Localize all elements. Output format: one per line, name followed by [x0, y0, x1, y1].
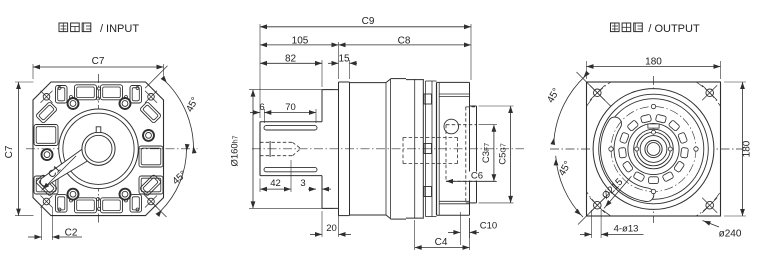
clamp slot band: [601, 117, 654, 202]
svg-text:3: 3: [300, 178, 305, 189]
svg-text:C7: C7: [4, 145, 15, 158]
svg-text:82: 82: [285, 54, 297, 65]
leader diameter 215: [600, 176, 631, 208]
dimension C3 F7: [479, 125, 498, 182]
svg-text:15: 15: [338, 54, 350, 65]
output bore hidden (C3): [446, 125, 477, 182]
output corner hole at (597.3,205.2): [590, 198, 605, 213]
dimension 105 and C8: [260, 35, 471, 79]
pocket field right column: [139, 146, 163, 194]
svg-text:180: 180: [645, 56, 662, 67]
svg-text:/ OUTPUT: / OUTPUT: [648, 23, 700, 35]
svg-text:105: 105: [292, 35, 309, 46]
output corner hole at (597.3,92.8): [590, 85, 605, 100]
bolt heads on strip: [424, 94, 432, 197]
input bore hidden lines: [260, 141, 301, 157]
dimension 45 deg output upper: [545, 71, 611, 145]
output boss circles: [593, 89, 714, 210]
output flange square: [587, 82, 721, 216]
dimension C6: [446, 171, 496, 184]
svg-text:C9: C9: [362, 16, 375, 27]
small hole at 0 deg: [694, 147, 698, 151]
hole on output flange face: [444, 119, 459, 134]
dimension 20: [310, 211, 351, 237]
dimension C9: [260, 16, 471, 118]
dimension C7 left: [4, 82, 34, 216]
input bore keyway: [96, 127, 101, 133]
pocket field bottom row: [56, 195, 142, 213]
title OUTPUT (CJK 输出端 / OUTPUT): [611, 23, 643, 32]
input flange outline: [33, 82, 164, 216]
pocket field top row: [56, 85, 142, 103]
output inner circles: [628, 123, 679, 174]
svg-text:/ INPUT: / INPUT: [100, 23, 139, 35]
input coupling housing outline: [260, 122, 322, 176]
bolt hole ring at (47,154.6): [42, 149, 53, 160]
bolt hole ring at (148.5,135.4): [143, 130, 154, 141]
dimension C4: [415, 218, 470, 250]
dimension 45 deg output lower: [554, 156, 611, 225]
dimension 180 right: [724, 82, 753, 216]
svg-text:180: 180: [742, 140, 753, 157]
hub small hole 90: [652, 130, 656, 134]
leader C1: [42, 156, 77, 191]
bolt hole ring at (125,103.5): [120, 98, 131, 109]
svg-text:6: 6: [259, 102, 264, 113]
input flange side silhouette: [339, 82, 350, 216]
dimension C10: [448, 212, 497, 245]
svg-text:C7: C7: [92, 56, 105, 67]
output pilot boss: [470, 106, 477, 203]
svg-text:42: 42: [270, 178, 281, 189]
input bore circles: [82, 132, 115, 165]
dimension C5 G7: [479, 106, 514, 203]
dimension 45 deg upper right: [145, 66, 201, 154]
hub small hole 0: [668, 147, 672, 151]
corner hole at (46.5,96.8): [41, 91, 53, 103]
coupling clamp slot top: [264, 126, 317, 130]
pocket corner diagonals: [36, 102, 162, 197]
svg-text:C10: C10: [480, 221, 497, 232]
pocket field left column: [34, 125, 58, 195]
output hub circles: [637, 132, 671, 166]
rear ring-gear housing: [391, 79, 424, 220]
coupling tooth ring: [655, 114, 666, 123]
pilot boss (160h7): [322, 90, 339, 209]
hidden internal bore in housing: [403, 138, 458, 164]
dimension 42 and 3: [260, 160, 331, 192]
input view centerlines: [26, 74, 198, 223]
svg-text:ø240: ø240: [719, 229, 742, 240]
bolt hole ring at (73,103.5): [68, 98, 79, 109]
output corner hole at (709.7,205.2): [702, 198, 717, 213]
dimension 6 and 70: [250, 102, 316, 123]
small hole at 180 deg: [609, 147, 613, 151]
small hole at 270 deg: [651, 104, 655, 108]
leader diameter 240: [703, 221, 742, 240]
dimension C2 bottom: [28, 207, 82, 240]
bolt hole ring at (73,194.2): [68, 189, 79, 200]
middle view centerline: [252, 148, 524, 150]
gearbox body: [350, 79, 391, 219]
bolt strip: [426, 81, 437, 217]
corner hole at (151,96.8): [145, 91, 157, 103]
svg-text:C2: C2: [65, 228, 78, 239]
hub keyway marker: [648, 124, 659, 128]
coupling clamp slot bottom: [264, 167, 317, 171]
title INPUT (CJK 输入端 / INPUT): [59, 23, 91, 32]
dimension C7 top: [33, 56, 164, 79]
bolt circle diameter 215: [574, 70, 733, 229]
svg-text:C8: C8: [398, 35, 411, 46]
corner hole at (46.5,201.5): [41, 196, 53, 208]
svg-text:20: 20: [326, 223, 337, 234]
clamp tongue: [40, 149, 91, 187]
dimension 4-diam 13: [580, 210, 644, 238]
dimension diameter 160h7: [230, 90, 335, 209]
output center bore: [645, 140, 662, 157]
small hole at 90 deg: [651, 189, 655, 193]
output recess hidden (C5): [466, 107, 477, 203]
hub small hole 180: [635, 147, 639, 151]
corner hole at (151,201.5): [145, 196, 157, 208]
dimension 180 top: [587, 56, 721, 79]
pocket fillet dots: [58, 87, 61, 90]
input boss circles: [59, 109, 139, 189]
small-hole bolt circle: [611, 107, 696, 192]
svg-text:70: 70: [285, 102, 296, 113]
svg-text:C6: C6: [471, 171, 483, 182]
svg-text:4-ø13: 4-ø13: [614, 223, 639, 234]
output corner hole at (709.7,92.8): [702, 85, 717, 100]
dimension 82 and 15: [260, 54, 357, 88]
bolt hole ring at (125,194.2): [120, 189, 131, 200]
output view centerlines: [550, 76, 742, 223]
dimension 45 deg lower right: [143, 144, 190, 217]
output flange block: [437, 82, 470, 215]
svg-text:C4: C4: [435, 237, 448, 248]
